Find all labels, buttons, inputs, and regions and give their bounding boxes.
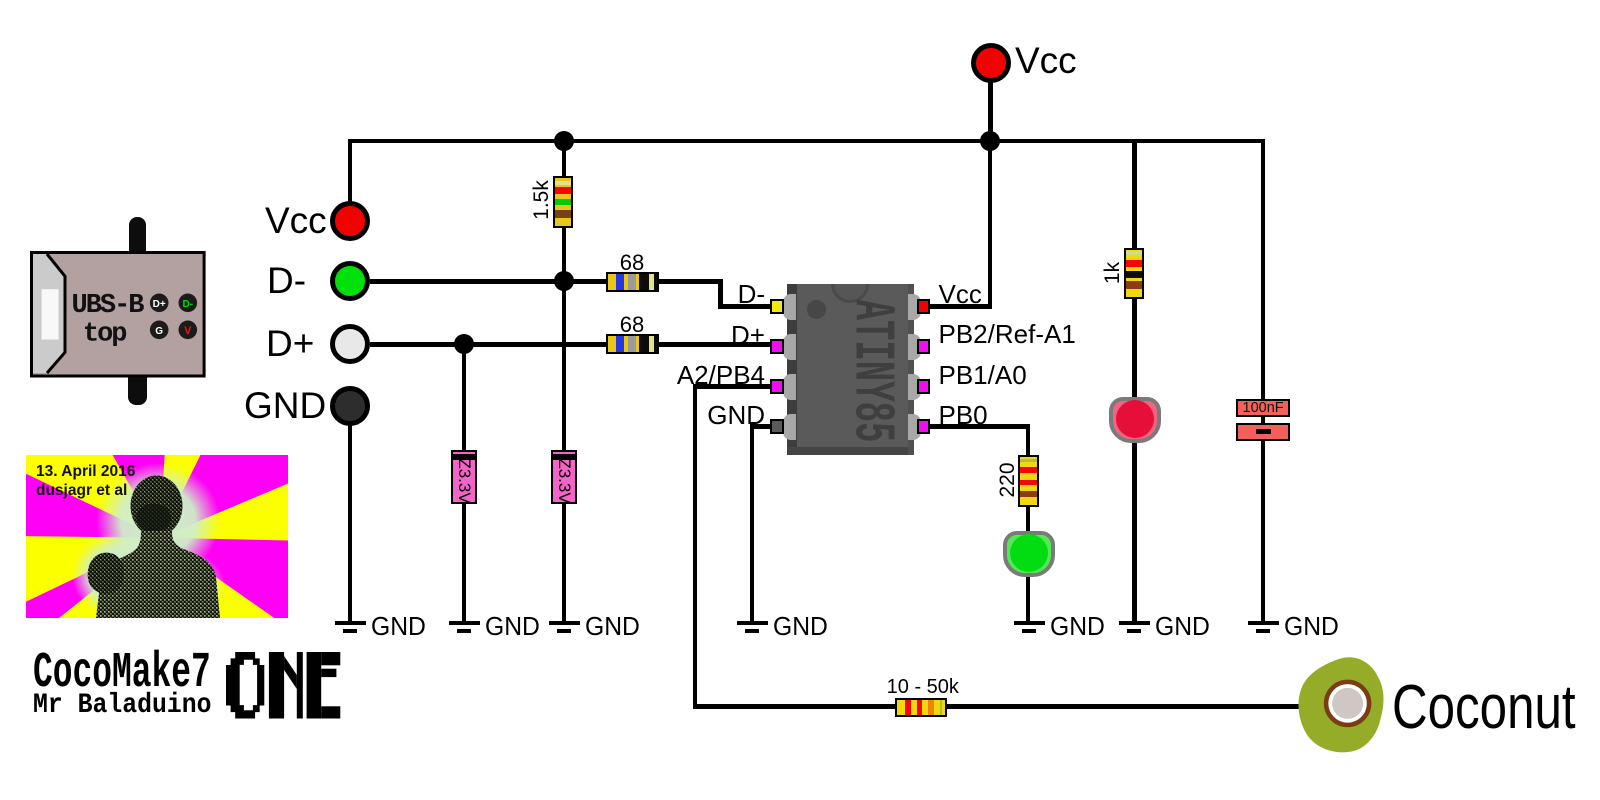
label D- left: [267, 262, 306, 299]
label Coconut: [1392, 677, 1576, 739]
wire vertical net x=564 (1.5k / zener branch): [562, 139, 567, 621]
label D- (IC pin1): [565, 281, 765, 307]
letter E bar: [307, 652, 322, 719]
wire top Vcc rail horizontal: [348, 139, 1266, 144]
IC U1 pin7 tip: [917, 339, 931, 355]
capacitor C1 100nF bottom plate: [1236, 423, 1290, 441]
figure face dark patch: [136, 504, 171, 533]
logo CocoMake7: [33, 649, 362, 699]
ground symbol 2 (x=464): [449, 621, 480, 626]
letter E top arm: [321, 652, 340, 665]
label D+ (IC pin2): [565, 322, 765, 348]
IC U1 pin1 tip: [770, 299, 784, 315]
LED LED2 red center: [1116, 400, 1154, 438]
label 1.5k (rotated): [531, 180, 553, 220]
wire top Vcc circle stub x=990: [988, 80, 993, 141]
letter O: [226, 652, 264, 719]
IC body right strip: [908, 284, 914, 455]
wire A2/PB4 horizontal: [693, 384, 772, 389]
USB connector bottom tab: [128, 372, 147, 405]
letter N right bar: [297, 652, 303, 719]
pin Vcc left red circle: [330, 201, 370, 241]
label Z3.3V (rotated, x=564): [554, 451, 574, 511]
wire GND pin vertical x=350: [348, 406, 353, 621]
pin D+ light circle: [330, 324, 370, 364]
IC U1 ATtiny85 body: [787, 284, 915, 455]
rays background magenta: [26, 455, 288, 618]
IC body left dark strip: [787, 284, 797, 455]
wire vertical x=695: [693, 384, 698, 709]
coconut flesh center: [1332, 688, 1363, 719]
IC U1 pin6 tip: [917, 379, 931, 395]
sticker image rays: [26, 455, 288, 618]
figure arm fist: [88, 553, 124, 594]
wire vertical x=752: [750, 424, 755, 621]
IC notch semicircle: [831, 265, 869, 303]
IC U1 pin8 tip: [917, 299, 931, 315]
IC U1 pin8 stub (Vcc): [908, 294, 922, 320]
capacitor C1 polarity bar: [1256, 429, 1270, 434]
IC U1 pin5 stub (PB0): [908, 414, 922, 440]
coconut shell ring: [1326, 682, 1369, 725]
wire bottom horizontal to coconut: [693, 704, 1342, 709]
junction dot D+ x=464: [454, 334, 474, 354]
wire D+ horizontal: [370, 342, 772, 347]
USB body shell: [32, 252, 205, 376]
IC U1 pin2 stub (D+): [783, 334, 796, 360]
figure body: [96, 531, 220, 618]
IC U1 pin5 tip: [917, 419, 931, 435]
ground symbol 6 (x=1134): [1119, 621, 1150, 626]
label Z3.3V (rotated, x=464): [454, 451, 474, 511]
zener diode D1 Z3.3V (x=464): [451, 450, 477, 504]
USB connector top tab: [129, 217, 146, 257]
letter N left bar: [269, 652, 284, 719]
svg-text:13. April 2016: 13. April 2016: [36, 463, 136, 480]
wire vertical x=990 to IC Vcc pin: [988, 139, 993, 309]
label PB1/A0 (IC pin6): [939, 362, 1027, 388]
svg-text:dusjagr et al: dusjagr et al: [36, 482, 127, 499]
wire IC GND pin horizontal: [750, 424, 772, 429]
LED LED1 green body: [1003, 531, 1055, 578]
label Vcc left: [265, 202, 327, 239]
resistor R6 10-50k (horizontal): [895, 698, 947, 718]
label Vcc (IC pin8): [939, 281, 982, 307]
ground symbol 7 (x=1263): [1248, 621, 1279, 626]
resistor R5 1k (vertical): [1124, 248, 1144, 300]
IC pin1 indicator dot: [807, 300, 826, 319]
IC U1 pin4 stub (GND): [783, 414, 796, 440]
figure head: [131, 476, 183, 537]
ground symbol 5 (x=1029): [1014, 621, 1045, 626]
label Vcc top: [1015, 42, 1077, 79]
rays yellow wedges: [0, 139, 560, 800]
wire Vcc pin stub vertical: [348, 139, 353, 204]
label 68 (lower): [592, 314, 672, 336]
coconut symbol: [1290, 655, 1400, 765]
IC U1 pin4 tip: [770, 419, 784, 435]
wire vertical x=1134 (1k branch upper): [1132, 139, 1137, 400]
USB pin dot G: [150, 320, 169, 339]
pin GND dark circle: [330, 386, 370, 426]
svg-text:V: V: [184, 325, 192, 337]
IC U1 pin3 tip: [770, 379, 784, 395]
USB metal area: [33, 254, 65, 373]
label GND (IC pin4): [565, 402, 765, 428]
letter E bottom arm: [321, 706, 340, 718]
label 220 (rotated): [997, 460, 1019, 500]
svg-text:UBS-B: UBS-B: [72, 291, 145, 321]
label 1k (rotated): [1102, 253, 1124, 293]
svg-text:D-: D-: [183, 299, 194, 310]
USB pin dot D-: [179, 293, 198, 312]
label 68 (upper): [592, 252, 672, 274]
zener diode D2 Z3.3V (x=564): [551, 450, 577, 504]
IC part label ATINY85 (rotated): [841, 296, 899, 446]
IC body bottom dark strip: [787, 447, 915, 455]
resistor R3 68 (D+ line): [606, 334, 659, 354]
IC U1 pin2 tip: [770, 339, 784, 355]
wire vertical x=1028 below green LED: [1026, 574, 1031, 621]
pin D- green circle: [330, 261, 370, 301]
ground symbol 3 (x=564): [549, 621, 580, 626]
wire D- horizontal from pin: [370, 279, 721, 284]
IC U1 pin1 stub (D-): [783, 294, 796, 320]
wire vertical x=1134 (below red LED): [1132, 439, 1137, 621]
USB pin dot V: [179, 320, 198, 339]
wire PB0 horizontal: [930, 424, 1030, 429]
IC U1 pin3 stub (A2/PB4): [783, 374, 796, 400]
wire vertical x=1263 (100nF branch): [1261, 139, 1266, 621]
USB metal slot white: [42, 289, 59, 339]
pin Vcc top red circle: [971, 43, 1011, 83]
wire vertical x=1028 (220 branch): [1026, 424, 1031, 534]
USB connector body: [30, 251, 206, 378]
svg-text:top: top: [83, 319, 126, 349]
LED LED1 green center: [1010, 534, 1048, 572]
capacitor C1 100nF top plate: [1236, 399, 1290, 418]
label 10 - 50k: [873, 677, 973, 697]
resistor R1 1.5k (vertical): [553, 176, 573, 228]
wire IC Vcc pin horizontal: [930, 304, 990, 309]
wire D- into IC pin1: [718, 304, 772, 309]
label A2/PB4 (IC pin3): [565, 362, 765, 388]
IC U1 pin6 stub (PB1): [908, 374, 922, 400]
svg-text:D+: D+: [153, 299, 166, 310]
wire vertical x=464 (zener branch): [462, 342, 467, 621]
label D+ left: [266, 325, 314, 362]
LED LED2 red body: [1109, 397, 1161, 444]
ground symbol 4 (x=752): [737, 621, 768, 626]
IC U1 pin7 stub (PB2): [908, 334, 922, 360]
resistor R2 68 (D- line): [606, 272, 659, 292]
junction dot x=990 top rail: [980, 131, 1000, 151]
USB pin dot D+: [150, 293, 169, 312]
letter N diagonal: [284, 656, 297, 689]
wire D- jog vertical: [718, 279, 723, 309]
label PB0 (IC pin5): [939, 402, 988, 428]
USB metal bevel line: [47, 254, 65, 373]
letter E mid arm: [321, 669, 336, 677]
junction dot D- x=564: [554, 271, 574, 291]
label PB2/Ref-A1 (IC pin7): [939, 321, 1076, 347]
coconut husk blob: [1299, 657, 1384, 752]
label GND left: [244, 387, 326, 424]
svg-text:G: G: [155, 326, 163, 337]
figure glow: [96, 463, 220, 579]
ground symbol 1 (x=350): [335, 621, 366, 626]
logo ONE (pixel letters): [226, 652, 342, 719]
junction dot x=564 top rail: [554, 131, 574, 151]
resistor R4 220 (vertical): [1018, 455, 1039, 507]
logo Mr Baladuino: [33, 692, 476, 720]
